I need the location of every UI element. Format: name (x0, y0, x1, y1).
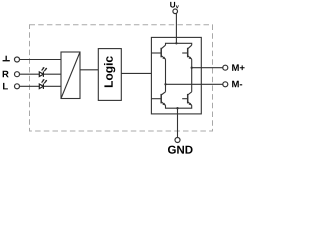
label M- (232, 81, 242, 88)
label earth symbol (3, 56, 10, 61)
isolator box (61, 52, 80, 99)
isolator diagonal (61, 52, 80, 99)
left column (165, 59, 167, 92)
label Logic (104, 56, 115, 87)
transistor Q1 (top-left) (151, 45, 165, 59)
wire R to isolator (20, 73, 61, 75)
enclosure dashed border (30, 25, 213, 131)
right column (191, 59, 193, 92)
terminal R circle (15, 72, 20, 77)
junction M- (164, 83, 166, 85)
bottom rail (166, 105, 192, 108)
terminal Uv circle (173, 9, 178, 14)
H-bridge box U1 (151, 37, 201, 114)
wire isolator to logic (80, 69, 98, 71)
transistor Q3 (bottom-left) (151, 92, 165, 106)
LED D2 on L line (39, 79, 47, 89)
label Uv (170, 2, 179, 8)
wire L to isolator (20, 85, 61, 87)
wire logic to H-bridge (121, 72, 151, 74)
transistor Q4 (bottom-right) (182, 92, 192, 106)
wire M- (166, 83, 223, 85)
label L (3, 83, 8, 90)
terminal 1 (earth) circle (15, 57, 20, 62)
junction M+ (191, 67, 193, 69)
wire GND drop (177, 108, 179, 137)
terminal M- circle (223, 82, 228, 87)
terminal L circle (15, 84, 20, 89)
junction Uv-rail (175, 42, 177, 44)
wire Uv drop (175, 13, 177, 43)
terminal GND circle (175, 138, 180, 143)
LED D1 on R line (39, 67, 47, 77)
transistor Q2 (top-right) (182, 45, 192, 59)
logic box U2 (98, 49, 121, 101)
label M+ (232, 64, 244, 71)
top rail (166, 43, 192, 45)
terminal M+ circle (223, 65, 228, 70)
label R (3, 71, 9, 78)
label GND (168, 146, 193, 154)
wire M+ (192, 67, 223, 69)
wire terminal1 to isolator (20, 59, 61, 61)
junction GND-rail (176, 107, 178, 109)
